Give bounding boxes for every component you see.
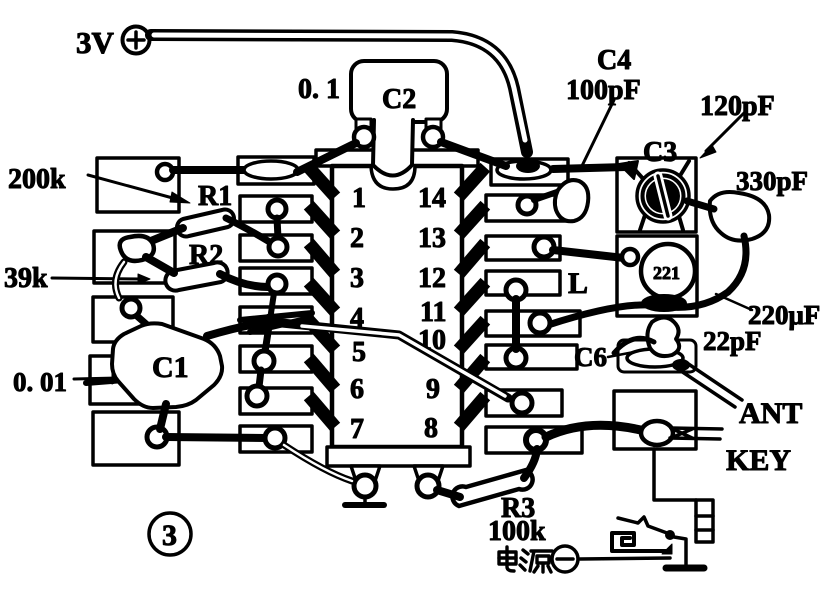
svg-text:13: 13	[418, 223, 446, 254]
IC U1 index notch	[371, 166, 415, 189]
pad P2 outer-left	[94, 231, 175, 283]
pad 221 square	[617, 236, 697, 316]
trimmer capacitor C3 rotor	[629, 161, 689, 230]
resistor R1 body	[177, 209, 234, 236]
battery negative terminal	[552, 546, 578, 572]
svg-text:C6: C6	[574, 342, 607, 372]
pin number 11	[420, 297, 446, 328]
svg-text:0. 01: 0. 01	[13, 367, 67, 397]
svg-text:ANT: ANT	[739, 397, 802, 430]
svg-text:12: 12	[418, 263, 446, 294]
svg-text:39k: 39k	[4, 263, 48, 294]
wire hook into C6	[614, 338, 654, 353]
svg-text:3: 3	[162, 519, 177, 552]
wire C3 to 330pF	[687, 201, 714, 209]
pad left row7	[240, 426, 312, 452]
pad left row3	[240, 268, 312, 294]
svg-text:1: 1	[352, 183, 366, 214]
wire chain tail to ring pin5	[265, 326, 269, 352]
battery positive terminal	[123, 27, 150, 54]
svg-text:0. 1: 0. 1	[298, 74, 340, 105]
IC pin tab 1	[313, 172, 331, 192]
label C1	[152, 351, 189, 384]
wire L jumper bar	[512, 299, 520, 349]
label power (dianyuan)	[499, 547, 552, 572]
inductor L jumper rings	[506, 280, 526, 368]
switch lever	[618, 517, 686, 566]
capacitor 221 disc	[641, 244, 695, 298]
pad right row1	[486, 195, 574, 221]
wire KEY twisted pair	[670, 428, 722, 439]
label 100pF	[566, 75, 641, 106]
pointer line C6	[608, 352, 634, 357]
wire ring to C1 top	[137, 316, 154, 331]
wire power negative lead	[580, 558, 670, 559]
wire chain ring1-ring2	[277, 218, 278, 238]
wire C2 left lead to pad row1	[297, 143, 356, 172]
wire pin8 pad to KEY pad	[546, 425, 645, 437]
pin number 14	[418, 183, 446, 214]
svg-text:9: 9	[426, 374, 440, 405]
svg-text:R1: R1	[198, 181, 232, 212]
svg-text:C2: C2	[382, 84, 416, 115]
pad right row3	[486, 271, 560, 295]
svg-text:L: L	[568, 267, 588, 300]
svg-text:100k: 100k	[488, 516, 546, 547]
pin number 8	[424, 413, 438, 444]
IC pin tab 10	[463, 325, 481, 345]
label L	[568, 267, 588, 300]
switch base plate	[666, 565, 704, 572]
pad right row6	[486, 390, 562, 416]
wire hole-ring P1 to pad row1	[173, 166, 244, 174]
IC U1 top end-cap	[316, 150, 478, 166]
label KEY	[726, 444, 791, 477]
pad left row6	[240, 388, 312, 414]
svg-text:5: 5	[352, 337, 366, 368]
label C4	[597, 45, 631, 76]
pin number 12	[418, 263, 446, 294]
svg-text:7: 7	[350, 414, 364, 445]
wire chain bar 2	[259, 370, 261, 387]
label 0.1 (C2 value)	[298, 74, 340, 105]
pointer line C4	[580, 100, 614, 170]
pin number 5	[352, 337, 366, 368]
svg-text:KEY: KEY	[726, 444, 791, 477]
pin number 2	[350, 223, 364, 254]
hole ring pin6 pad	[247, 386, 267, 406]
wire blob to R2 left lead	[146, 257, 174, 273]
pad left row2	[240, 235, 312, 261]
capacitor C2 lead tongue	[373, 120, 413, 176]
label 3V	[76, 25, 115, 60]
hole ring pin8 pad (R3 node)	[526, 430, 546, 450]
IC pin tab 13	[463, 210, 481, 230]
label 0.01 (C1 value)	[13, 367, 67, 397]
pointer arrow 0.01 to C1	[74, 372, 126, 384]
pad left row4	[240, 307, 312, 333]
pad P4 outer-left	[90, 356, 171, 404]
IC U1 bottom end-cap	[327, 447, 470, 466]
label C6	[574, 342, 607, 372]
pad left row5	[240, 346, 312, 372]
wire R3 to pin8 pad ring	[524, 449, 537, 478]
svg-text:3V: 3V	[76, 25, 115, 60]
wire IC bottom lead to R3	[437, 490, 460, 497]
IC pin tab 9	[463, 363, 481, 384]
IC bottom lead left stem	[351, 466, 380, 497]
svg-text:3: 3	[350, 263, 364, 294]
pin number 7	[350, 414, 364, 445]
svg-text:14: 14	[418, 183, 446, 214]
pad P3 outer-left	[93, 297, 173, 342]
pin number 3	[350, 263, 364, 294]
ground symbol	[345, 497, 384, 505]
svg-text:221: 221	[653, 263, 680, 283]
svg-text:11: 11	[420, 297, 446, 328]
IC pin tab 2	[313, 210, 331, 230]
hole ring pin5 pad	[254, 351, 274, 371]
IC pin tab 8	[463, 401, 481, 422]
IC pin tab 14	[463, 172, 481, 192]
wire insulated drop from blob to ring	[115, 262, 124, 298]
svg-text:2: 2	[350, 223, 364, 254]
hole ring pin11 pad	[530, 313, 550, 333]
IC bottom lead right stem	[414, 466, 443, 497]
wire 3V supply rail to pin14 pad	[151, 35, 527, 152]
electrolytic 220uF lead arc	[548, 236, 746, 325]
pin number 13	[418, 223, 446, 254]
IC pin tab 11	[463, 287, 481, 307]
capacitor C1 body	[112, 323, 222, 408]
pin number 1	[352, 183, 366, 214]
pointer arrow 200k to R1	[88, 175, 190, 203]
pad P1 outer-left top	[97, 158, 179, 212]
resistor R2 body	[165, 262, 227, 290]
svg-text:120pF: 120pF	[700, 91, 775, 122]
pad right row7	[486, 427, 582, 453]
connector block	[696, 500, 713, 542]
wire bottom bus to ring	[166, 437, 266, 438]
pad left row1	[240, 196, 312, 222]
pad ANT	[618, 340, 696, 372]
label 22pF	[703, 326, 762, 356]
wire KEY pad to switch	[654, 449, 696, 500]
pad right row0 (3V supply pad)	[491, 159, 568, 185]
pointer line 220uF	[716, 294, 752, 310]
IC pin tab 7	[313, 401, 331, 422]
wire ring to C4	[534, 192, 557, 200]
pad KEY	[614, 391, 696, 449]
hole ring on pin9 pad	[512, 393, 532, 413]
IC pin tab 4	[313, 287, 331, 307]
svg-text:8: 8	[424, 413, 438, 444]
svg-text:100pF: 100pF	[566, 75, 641, 106]
capacitor 330pF body	[710, 192, 769, 241]
pin number 10	[418, 325, 446, 356]
label circled figure 3	[149, 513, 191, 555]
svg-text:C1: C1	[152, 351, 189, 384]
wire 3V pad to trimmer C3	[553, 167, 626, 169]
label 200k	[8, 164, 66, 195]
pin number 4	[350, 303, 364, 334]
hole ring pin13 pad	[518, 196, 536, 214]
label 330pF	[736, 166, 808, 196]
label 39k	[4, 263, 48, 294]
hole ring pin2 pad	[269, 238, 287, 256]
wire R1 right lead to ring row2	[226, 218, 268, 241]
svg-text:C3: C3	[643, 137, 677, 168]
pad left row0 (top, C2 lead)	[238, 157, 314, 184]
wire antenna twisted pair	[672, 359, 742, 407]
pad right row4	[486, 311, 580, 336]
KEY grommet blob	[641, 421, 673, 445]
pad P5 outer-left bottom	[93, 412, 179, 465]
wire ring to 221 pad	[553, 250, 624, 258]
IC pin tab 3	[313, 248, 331, 269]
svg-text:6: 6	[350, 374, 364, 405]
hole ring pin12 pad	[534, 237, 554, 257]
capacitor C2 body	[351, 61, 447, 122]
IC U1 body	[332, 166, 462, 447]
wire C1 bottom lead	[160, 404, 166, 429]
capacitor C2 lead stems and rings	[354, 119, 443, 147]
IC pin tab 12	[463, 248, 481, 269]
wire crossing X at pin4	[240, 313, 312, 332]
pad right row2	[486, 236, 560, 260]
svg-text:330pF: 330pF	[736, 166, 808, 196]
pin number 6	[350, 374, 364, 405]
hole ring pin3 pad	[268, 275, 286, 313]
label 100k	[488, 516, 546, 547]
pointer arrow 120pF	[700, 112, 745, 158]
pointer line 39k	[52, 274, 150, 284]
battery spring contact	[612, 533, 672, 554]
svg-text:22pF: 22pF	[703, 326, 762, 356]
IC pin tab 6	[313, 363, 331, 384]
IC pin tab 5	[313, 325, 331, 345]
capacitor C6 body (22pF)	[647, 318, 679, 357]
label 120pF	[700, 91, 775, 122]
resistor R3 body	[452, 470, 532, 506]
wire R1 left lead to junction blob	[146, 228, 183, 243]
junction blob (200k/39k node)	[120, 236, 154, 261]
label 220uF	[748, 300, 820, 330]
label R3	[501, 493, 535, 524]
pin number 9	[426, 374, 440, 405]
wire C2 right lead to 3V pad	[441, 142, 506, 166]
label ANT	[739, 397, 802, 430]
wire C1 top-right to crossing junction	[207, 322, 268, 336]
label R1	[198, 181, 232, 212]
label C3	[643, 137, 677, 168]
wire insulated curve to IC bottom-left lead	[284, 445, 352, 481]
junction blob at pin4 crossing	[264, 313, 278, 327]
capacitor C4 body	[555, 180, 588, 221]
svg-text:200k: 200k	[8, 164, 66, 195]
label R2	[189, 240, 223, 271]
hole ring on pin7 pad	[265, 428, 285, 448]
trimmer capacitor C3 pad	[617, 158, 696, 232]
svg-text:C4: C4	[597, 45, 631, 76]
hole ring pin1 pad	[268, 200, 286, 218]
pad right row5	[486, 345, 577, 369]
hole ring above C1	[122, 299, 140, 317]
wire long diagonal jumper across IC	[272, 322, 508, 398]
wire R2 right lead to pin3 pad	[220, 274, 268, 287]
